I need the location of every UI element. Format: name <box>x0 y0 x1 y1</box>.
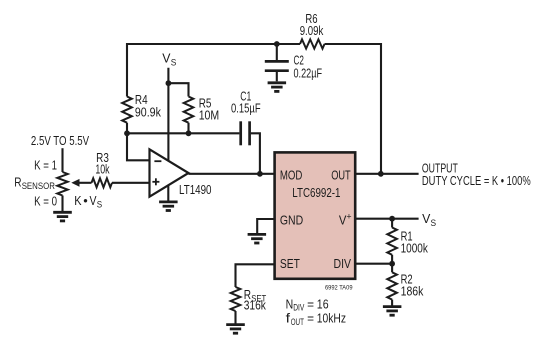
svg-text:=: = <box>307 296 314 311</box>
svg-text:K = 1: K = 1 <box>34 158 57 173</box>
node OUT junction <box>378 171 384 177</box>
svg-text:2.5V TO 5.5V: 2.5V TO 5.5V <box>31 133 89 148</box>
svg-text:S: S <box>431 218 437 229</box>
resistor R2 <box>387 264 423 306</box>
wire inverting node line <box>127 132 239 134</box>
svg-text:V: V <box>90 193 97 208</box>
node R4 bottom junction <box>124 130 130 136</box>
wire Vplus pin <box>355 218 418 220</box>
svg-text:•: • <box>83 193 88 208</box>
resistor RSET <box>231 287 267 313</box>
label OUTPUT <box>422 160 531 188</box>
wire R5 to node line <box>187 123 189 134</box>
svg-text:V: V <box>162 51 171 66</box>
svg-text:1000k: 1000k <box>401 240 429 255</box>
wire VS supply to op-amp <box>167 68 169 161</box>
svg-text:MOD: MOD <box>280 167 303 182</box>
svg-text:DIV: DIV <box>334 256 352 271</box>
wire R3 to non-inverting input <box>112 182 150 184</box>
svg-text:0.15µF: 0.15µF <box>231 101 261 116</box>
svg-text:K = 0: K = 0 <box>34 194 57 209</box>
wire op-amp output <box>189 173 275 175</box>
wire OUT pin <box>355 173 418 175</box>
wire to inverting input <box>127 133 150 160</box>
wire op-amp ground stem <box>167 185 169 201</box>
node Vplus R1 junction <box>389 216 395 222</box>
wire R4 to node line <box>126 123 128 134</box>
svg-text:10kHz: 10kHz <box>317 311 346 326</box>
potentiometer RSENSOR <box>14 158 91 209</box>
ground below op-amp <box>159 200 178 203</box>
svg-text:6992 TA09: 6992 TA09 <box>325 284 353 291</box>
ground below C2 <box>268 81 287 84</box>
svg-text:+: + <box>346 212 352 223</box>
svg-text:S: S <box>171 57 177 68</box>
svg-text:K: K <box>74 193 82 208</box>
svg-text:OUT: OUT <box>291 317 304 328</box>
ground below RSET <box>226 323 245 326</box>
resistor R6 <box>300 11 325 49</box>
svg-text:10M: 10M <box>199 108 220 123</box>
wire VS jog to R5 <box>168 83 188 96</box>
svg-text:0.22µF: 0.22µF <box>294 65 323 80</box>
svg-text:V: V <box>422 211 431 226</box>
svg-text:N: N <box>286 296 294 311</box>
node DIV junction <box>389 261 395 267</box>
svg-text:90.9k: 90.9k <box>135 104 161 119</box>
svg-text:16: 16 <box>317 296 329 311</box>
svg-text:LT1490: LT1490 <box>179 182 212 197</box>
svg-text:=: = <box>307 311 314 326</box>
svg-text:S: S <box>97 199 102 210</box>
wire SET pin <box>236 264 275 287</box>
node C1 output junction <box>257 171 263 177</box>
resistor R1 <box>387 219 428 264</box>
svg-text:316k: 316k <box>244 298 267 313</box>
IC U2 LTC6992-1 <box>275 152 356 278</box>
svg-text:10k: 10k <box>95 162 110 177</box>
ground below GND pin <box>248 233 267 236</box>
wire RSET to ground <box>234 311 236 324</box>
wire pot top <box>61 148 63 172</box>
wire C1 to output node <box>251 133 260 174</box>
wire DIV pin <box>355 263 392 265</box>
node R5 bottom junction <box>186 130 192 136</box>
node C2 junction <box>274 41 280 47</box>
svg-text:LTC6992-1: LTC6992-1 <box>292 185 340 200</box>
wire GND pin <box>257 219 274 233</box>
svg-text:DIV: DIV <box>293 303 305 314</box>
resistor R5 <box>184 96 220 123</box>
ground below RSENSOR <box>53 211 72 214</box>
svg-text:R: R <box>14 175 21 190</box>
svg-text:SENSOR: SENSOR <box>22 181 55 192</box>
svg-text:GND: GND <box>280 212 303 227</box>
svg-text:SET: SET <box>280 256 300 271</box>
capacitor C2 <box>265 44 322 81</box>
wire pot bottom <box>61 196 63 212</box>
wire top feedback rail <box>127 44 300 97</box>
resistor R3 <box>92 150 113 188</box>
node VS R5 junction <box>166 80 172 86</box>
resistor R4 <box>122 92 161 123</box>
svg-text:OUT: OUT <box>331 167 351 182</box>
svg-text:9.09k: 9.09k <box>300 23 324 38</box>
svg-text:DUTY CYCLE = K • 100%: DUTY CYCLE = K • 100% <box>422 173 531 188</box>
ground below R2 <box>383 305 402 308</box>
op-amp U1 LT1490 <box>150 149 212 197</box>
svg-text:186k: 186k <box>401 283 424 298</box>
wire R6 to output node <box>325 44 382 174</box>
capacitor C1 <box>231 89 261 146</box>
